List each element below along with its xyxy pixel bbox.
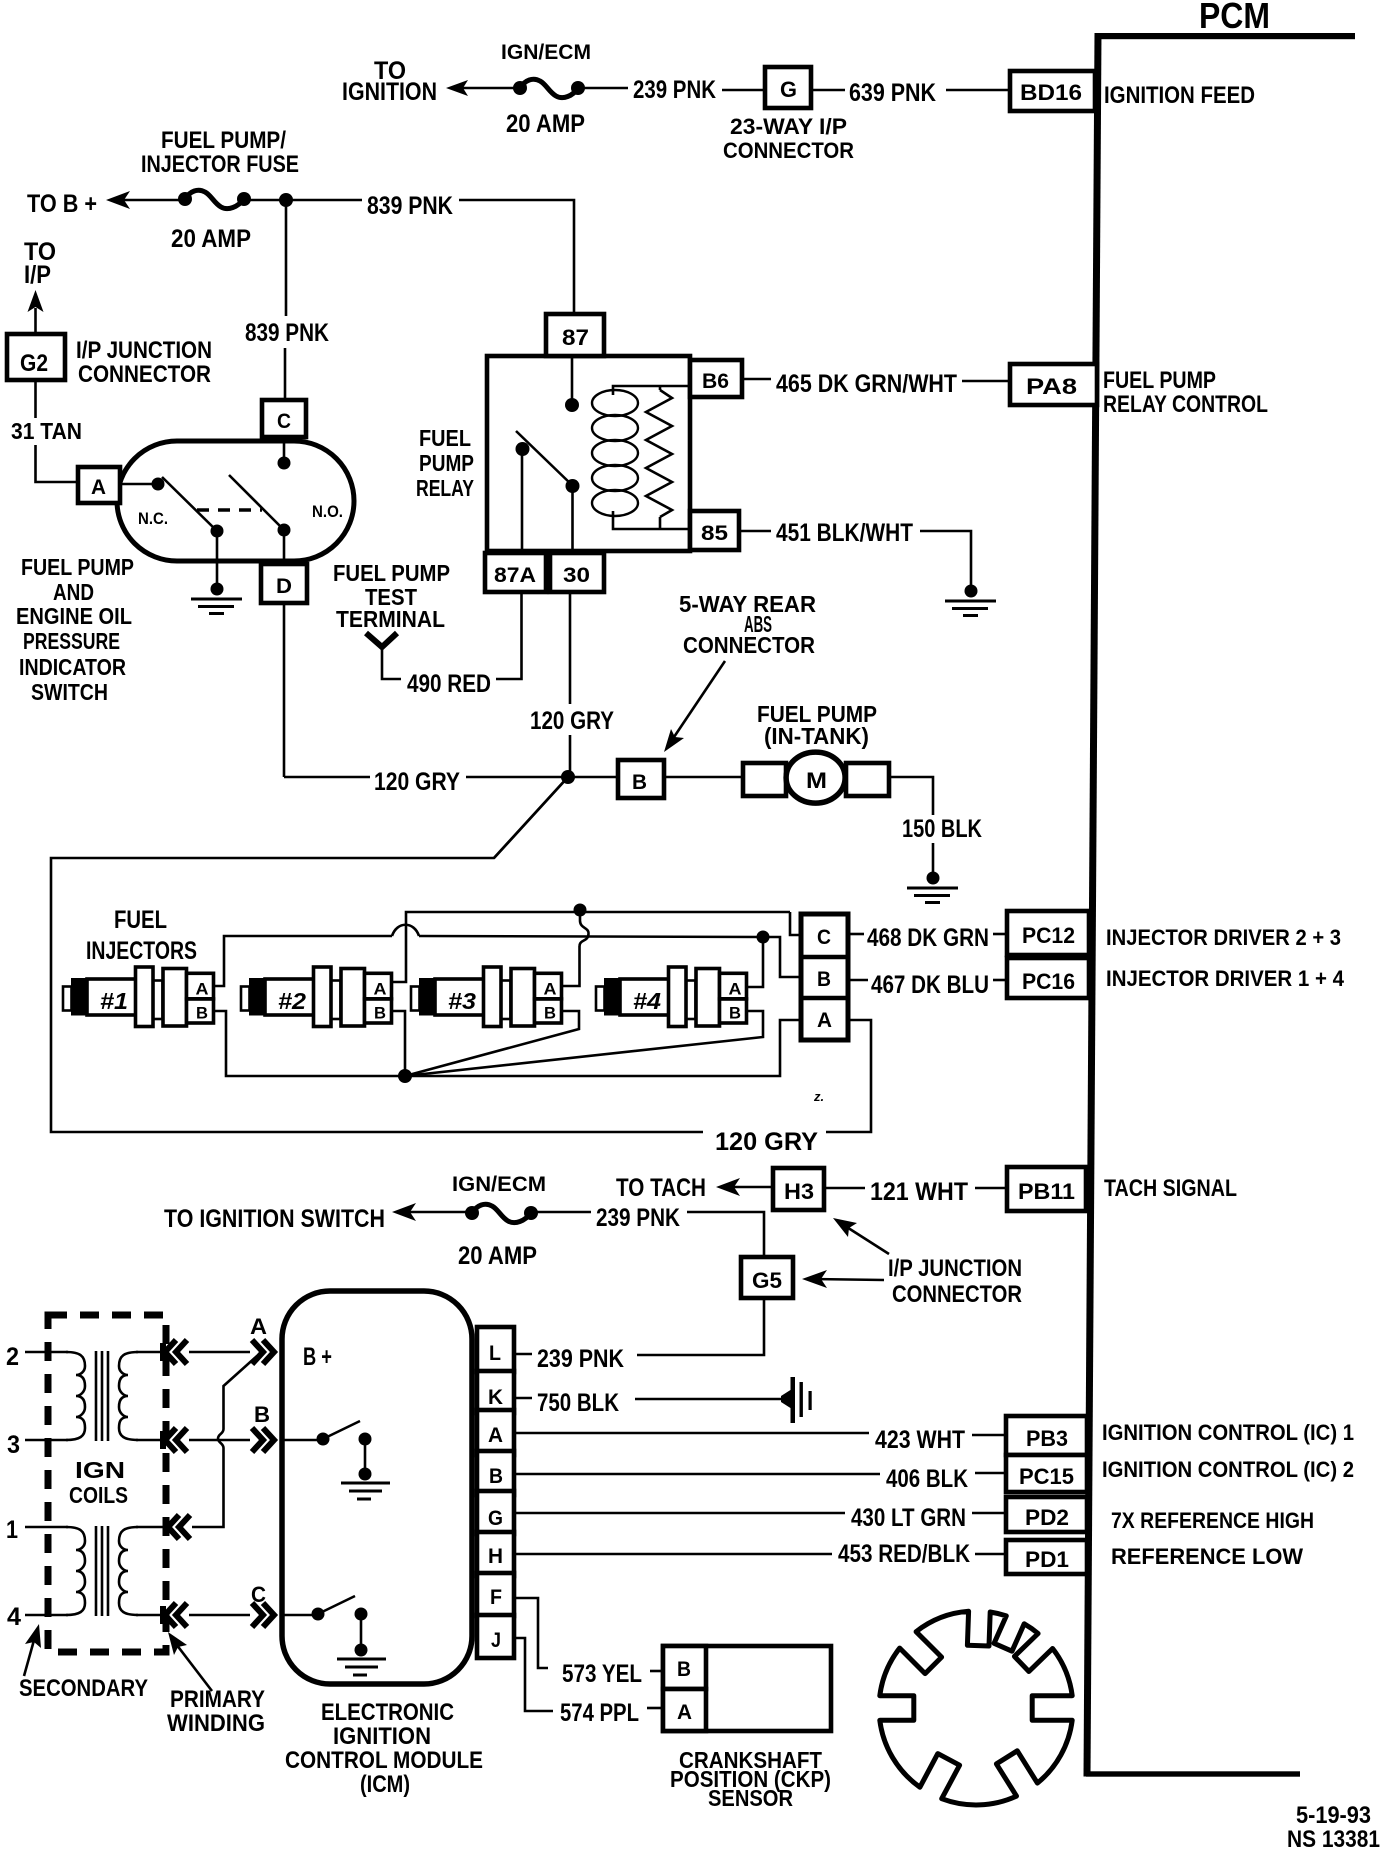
svg-text:AND: AND — [53, 579, 94, 605]
wire fuse to 239 PNK — [578, 87, 628, 90]
connector PC15 box — [1006, 1455, 1087, 1492]
connector chevrons row 1 — [166, 1515, 190, 1539]
injector #4 — [596, 967, 747, 1027]
ground below oval — [191, 583, 242, 614]
svg-text:FUEL: FUEL — [419, 425, 471, 451]
svg-text:CONTROL MODULE: CONTROL MODULE — [285, 1747, 483, 1774]
svg-text:490 RED: 490 RED — [407, 670, 491, 698]
connector G box — [765, 67, 811, 108]
wire H3 to 121 WHT — [826, 1187, 865, 1190]
arrow secondary — [24, 1624, 41, 1676]
svg-text:G5: G5 — [752, 1268, 782, 1293]
wire junction down to C — [285, 200, 288, 316]
injector #2 — [241, 967, 392, 1027]
svg-text:SECONDARY: SECONDARY — [19, 1675, 148, 1702]
dashed link between arms — [197, 508, 262, 511]
wire B box to fuel pump — [664, 776, 743, 779]
arrow to ignition — [446, 80, 468, 96]
svg-text:I/P JUNCTION: I/P JUNCTION — [76, 337, 212, 364]
entry chevrons row A — [252, 1340, 274, 1364]
terminal B6 box — [690, 360, 742, 397]
svg-text:L: L — [489, 1342, 501, 1365]
svg-text:839 PNK: 839 PNK — [367, 192, 453, 220]
svg-text:639 PNK: 639 PNK — [849, 79, 936, 107]
entry chevrons row C — [252, 1603, 274, 1627]
terminal 30 box — [550, 553, 604, 592]
arrow primary winding — [168, 1632, 212, 1691]
oil pressure switch oval — [117, 441, 354, 561]
wire 121 to PB11 — [975, 1187, 1005, 1190]
wire 574 to CKP A — [647, 1707, 663, 1710]
svg-text:IGNITION FEED: IGNITION FEED — [1104, 82, 1255, 109]
terminal 87A box — [485, 553, 546, 592]
wire coil2 primary bottom — [136, 1614, 165, 1617]
svg-text:N.C.: N.C. — [138, 509, 168, 528]
relay coil — [592, 390, 638, 516]
svg-text:5-19-93: 5-19-93 — [1296, 1802, 1371, 1829]
wire junction to 839 PNK label — [244, 199, 362, 202]
svg-text:BD16: BD16 — [1020, 80, 1082, 105]
svg-text:TO B +: TO B + — [27, 190, 97, 218]
CKP sensor body — [663, 1646, 831, 1731]
terminal C box — [262, 400, 306, 437]
coil 2 core — [96, 1526, 108, 1616]
wire 423 to PB3 — [972, 1434, 1005, 1437]
svg-text:PB3: PB3 — [1026, 1426, 1068, 1451]
ignition coils dashed box — [48, 1315, 166, 1652]
fuse ign/ecm 20A lower — [465, 1204, 538, 1222]
coil 2 primary winding — [119, 1527, 138, 1615]
resistor bottom link — [659, 517, 662, 529]
wire row 2 to ICM — [189, 1351, 250, 1354]
svg-text:IGN: IGN — [75, 1457, 125, 1483]
coil 1 core — [96, 1351, 108, 1441]
wire to PA8 — [962, 380, 1008, 383]
wire arrow to fuse — [452, 87, 520, 90]
wire terminal 2 — [25, 1351, 68, 1354]
svg-text:TACH SIGNAL: TACH SIGNAL — [1104, 1175, 1237, 1202]
svg-text:87A: 87A — [494, 564, 536, 587]
wire 451 to ground — [920, 531, 971, 586]
wire 85 stub — [739, 530, 771, 533]
wire 430 to PD2 — [972, 1512, 1005, 1515]
svg-text:J: J — [491, 1629, 501, 1652]
wire inj1-A riser to B bus — [214, 936, 392, 986]
wire B bus continuing — [419, 936, 763, 937]
wire pump to 150 BLK — [889, 777, 933, 815]
svg-text:120 GRY: 120 GRY — [530, 707, 614, 735]
wire F to 573 YEL — [515, 1598, 548, 1668]
node A contact — [152, 478, 165, 491]
resistor top link — [659, 386, 662, 390]
wire B bus into B cell — [763, 937, 801, 977]
wire fuse to 239 PNK — [531, 1211, 591, 1214]
wire D to 120 GRY label — [284, 776, 370, 779]
label FUEL PUMP (IN-TANK) — [757, 701, 877, 749]
wire N.C. to ground — [216, 531, 219, 586]
svg-text:453 RED/BLK: 453 RED/BLK — [838, 1540, 970, 1568]
svg-text:TERMINAL: TERMINAL — [336, 606, 445, 632]
wire G2 down — [34, 380, 37, 418]
svg-text:120 GRY: 120 GRY — [374, 768, 460, 796]
arrow to B+ — [106, 191, 130, 209]
label TO I/P — [24, 238, 56, 289]
svg-text:31 TAN: 31 TAN — [11, 418, 82, 444]
svg-text:G2: G2 — [20, 350, 48, 377]
wire B to 406 BLK — [515, 1473, 880, 1476]
svg-text:ELECTRONIC: ELECTRONIC — [321, 1699, 454, 1726]
wire L to 239 PNK — [515, 1353, 532, 1356]
label FUEL PUMP/ INJECTOR FUSE — [141, 127, 299, 178]
wire row 3 to ICM — [189, 1439, 250, 1442]
svg-text:F: F — [490, 1586, 502, 1609]
connector PA8 box — [1010, 364, 1097, 405]
wire arrow to fuse — [112, 199, 185, 202]
wire 150 BLK to ground — [932, 843, 935, 875]
wire terminal 3 — [25, 1439, 68, 1442]
wire 239 PNK to G — [722, 89, 763, 92]
svg-text:7X REFERENCE HIGH: 7X REFERENCE HIGH — [1111, 1508, 1314, 1533]
terminal 87 box — [546, 314, 604, 356]
svg-text:C: C — [251, 1582, 266, 1607]
wire terminal 4 — [25, 1614, 68, 1617]
node N.C. lower contact — [211, 525, 224, 538]
svg-text:4: 4 — [7, 1603, 21, 1631]
fuse fuel pump/injector 20A — [178, 190, 251, 208]
svg-text:121 WHT: 121 WHT — [870, 1178, 968, 1206]
wire B cell to 467 — [848, 979, 868, 982]
svg-text:RELAY CONTROL: RELAY CONTROL — [1103, 391, 1268, 418]
wire row 1 riser to A chevron — [192, 1356, 257, 1527]
wire inj1-B riser to common bus — [214, 1011, 402, 1076]
svg-text:PUMP: PUMP — [419, 450, 474, 476]
arrow to ignition switch — [392, 1203, 416, 1221]
svg-text:z.: z. — [813, 1089, 824, 1104]
wire 839 PNK to relay 87 riser — [459, 200, 574, 316]
node B bus junction — [757, 931, 770, 944]
svg-text:#2: #2 — [278, 988, 306, 1014]
wire 30 contact down — [571, 486, 574, 553]
ground for 451 — [945, 585, 996, 616]
ICM switch 1 — [317, 1421, 372, 1481]
svg-text:3: 3 — [7, 1431, 20, 1459]
svg-text:A: A — [91, 476, 106, 499]
N.O. switch arm — [229, 475, 284, 530]
wire J to 574 PPL — [515, 1638, 553, 1711]
wire coil1 primary bottom — [136, 1439, 165, 1442]
test terminal Y symbol — [366, 633, 397, 647]
svg-text:WINDING: WINDING — [167, 1710, 265, 1737]
N.C. switch arm — [162, 477, 217, 531]
junction dot after fuse — [279, 193, 293, 207]
wire G2 up — [34, 308, 37, 335]
svg-text:#1: #1 — [100, 988, 128, 1014]
svg-text:CONNECTOR: CONNECTOR — [892, 1281, 1022, 1308]
svg-text:467 DK BLU: 467 DK BLU — [871, 971, 989, 999]
svg-text:SENSOR: SENSOR — [708, 1785, 793, 1811]
svg-text:INJECTOR DRIVER 1 + 4: INJECTOR DRIVER 1 + 4 — [1106, 966, 1345, 991]
wire 87 to contact — [571, 356, 574, 402]
svg-text:PB11: PB11 — [1018, 1179, 1075, 1204]
svg-text:NS 13381: NS 13381 — [1287, 1826, 1380, 1850]
svg-text:IGN/ECM: IGN/ECM — [501, 41, 591, 64]
wire 573 to CKP B — [650, 1670, 663, 1673]
svg-text:B6: B6 — [702, 370, 729, 393]
svg-text:87: 87 — [562, 325, 589, 350]
svg-text:406 BLK: 406 BLK — [886, 1465, 968, 1493]
injector supply loop wire — [51, 777, 703, 1132]
wire B6 stub — [742, 378, 771, 381]
connector B box (ABS) — [618, 760, 664, 798]
injector #3 — [411, 967, 562, 1027]
svg-text:G: G — [780, 77, 797, 102]
label FUEL PUMP RELAY CONTROL — [1103, 367, 1268, 418]
svg-text:839 PNK: 839 PNK — [245, 319, 329, 347]
wire C stub — [283, 437, 286, 463]
node C bus junction — [574, 904, 587, 917]
svg-text:468 DK GRN: 468 DK GRN — [867, 924, 989, 952]
svg-text:20 AMP: 20 AMP — [506, 110, 585, 138]
svg-text:PD1: PD1 — [1025, 1547, 1069, 1572]
node common junction — [398, 1069, 412, 1083]
ICM switch 1 wire — [284, 1439, 323, 1442]
wire A to 423 WHT — [515, 1432, 869, 1435]
svg-text:G: G — [488, 1507, 503, 1530]
connector H3 box — [773, 1168, 824, 1210]
svg-text:(IN-TANK): (IN-TANK) — [764, 723, 869, 749]
wire 30 down — [569, 592, 572, 704]
fuel pump motor — [743, 752, 889, 803]
coil 1 primary winding — [119, 1352, 138, 1440]
svg-text:ENGINE OIL: ENGINE OIL — [16, 603, 132, 629]
arrow to G5 from label — [802, 1270, 884, 1288]
wire inj3-A riser crossing B bus — [562, 946, 580, 986]
svg-text:FUEL PUMP: FUEL PUMP — [1103, 367, 1216, 394]
svg-text:COILS: COILS — [69, 1482, 128, 1508]
wire C cell to 468 — [848, 933, 864, 936]
wire G to 430 LT GRN — [515, 1512, 845, 1515]
label date stamp — [1287, 1802, 1380, 1850]
wire inj4-A riser to junction — [747, 937, 763, 987]
svg-text:574 PPL: 574 PPL — [560, 1699, 639, 1727]
wire inj3-A S-crossing — [580, 912, 589, 946]
wire inj2-A riser to C bus — [392, 912, 790, 982]
wire 406 to PC15 — [975, 1472, 1005, 1475]
wire G to 639 PNK — [811, 89, 845, 92]
connector chevrons row 3 — [163, 1428, 187, 1452]
ICM switch 2 wire — [284, 1614, 318, 1617]
wire to C box — [284, 348, 287, 402]
svg-text:85: 85 — [701, 522, 728, 545]
wire 31 TAN to A — [36, 445, 81, 482]
coil bottom wire — [613, 511, 689, 529]
node fuel pump feed junction — [561, 770, 575, 784]
wire N.O. to D — [283, 530, 286, 564]
svg-text:RELAY: RELAY — [416, 475, 474, 501]
node below C — [278, 457, 291, 470]
svg-text:B: B — [632, 771, 647, 794]
wire 639 PNK to BD16 — [946, 89, 1008, 92]
svg-text:20 AMP: 20 AMP — [458, 1242, 537, 1270]
svg-text:FUEL PUMP: FUEL PUMP — [21, 554, 134, 580]
svg-text:239 PNK: 239 PNK — [633, 76, 716, 104]
svg-text:FUEL PUMP: FUEL PUMP — [333, 560, 450, 586]
svg-text:A: A — [677, 1701, 692, 1724]
svg-text:PRIMARY: PRIMARY — [170, 1686, 265, 1713]
svg-text:N.O.: N.O. — [312, 502, 343, 521]
connector BD16 box — [1010, 71, 1095, 111]
svg-text:#4: #4 — [633, 988, 661, 1014]
wire common bus to A cell — [405, 1020, 801, 1076]
svg-text:#3: #3 — [448, 988, 476, 1014]
coil top wire — [613, 386, 689, 395]
fuse IGN/ECM 20A — [513, 79, 585, 97]
svg-text:PA8: PA8 — [1026, 374, 1077, 399]
svg-text:INDICATOR: INDICATOR — [19, 654, 126, 680]
svg-text:(ICM): (ICM) — [360, 1771, 410, 1798]
svg-text:23-WAY I/P: 23-WAY I/P — [730, 114, 847, 139]
connector PB11 box — [1007, 1167, 1086, 1211]
svg-text:B: B — [817, 968, 831, 991]
svg-text:CONNECTOR: CONNECTOR — [723, 138, 854, 163]
connector PC12 box — [1007, 911, 1089, 955]
svg-text:750 BLK: 750 BLK — [537, 1389, 619, 1417]
wire inj4-B to common junction — [405, 1011, 763, 1076]
svg-text:FUEL: FUEL — [114, 906, 167, 934]
node N.O. contact — [278, 524, 291, 537]
wire 87A contact down — [521, 449, 524, 553]
arrow to tach — [716, 1178, 740, 1196]
wire D down — [283, 603, 286, 777]
label FUEL INJECTORS — [86, 906, 197, 965]
svg-text:IGNITION: IGNITION — [333, 1723, 431, 1750]
connector G5 box — [741, 1257, 793, 1298]
resistor zigzag — [646, 390, 672, 517]
wire junction diagonal to injector loop — [494, 777, 568, 858]
svg-text:C: C — [817, 926, 831, 949]
wire arrow to fuse — [398, 1211, 472, 1214]
arrow to B box — [664, 661, 725, 752]
svg-text:TO TACH: TO TACH — [616, 1174, 706, 1202]
svg-text:PC12: PC12 — [1022, 923, 1075, 948]
svg-text:CONNECTOR: CONNECTOR — [683, 632, 815, 658]
svg-text:239 PNK: 239 PNK — [537, 1345, 624, 1373]
label FUEL PUMP TEST TERMINAL — [333, 560, 450, 632]
label ELECTRONIC IGNITION CONTROL MODULE (ICM) — [285, 1699, 483, 1798]
svg-text:1: 1 — [6, 1516, 18, 1544]
svg-text:M: M — [806, 768, 827, 793]
wire 239 PNK to G5 — [687, 1212, 764, 1257]
svg-text:PCM: PCM — [1199, 0, 1270, 36]
svg-text:SWITCH: SWITCH — [31, 679, 108, 705]
label 23-WAY I/P CONNECTOR — [723, 114, 854, 163]
wire Y down to 490 RED — [382, 645, 401, 679]
wire terminal 1 — [25, 1526, 68, 1529]
wire coil1 primary top — [136, 1351, 165, 1354]
label 5-WAY REAR ABS CONNECTOR — [679, 591, 816, 658]
svg-text:K: K — [488, 1386, 503, 1409]
ICM terminal column — [477, 1327, 514, 1658]
svg-text:150 BLK: 150 BLK — [902, 815, 982, 843]
ground ICM 1 — [341, 1483, 390, 1499]
fuel pump relay box — [487, 356, 690, 551]
relay switch arm — [516, 431, 573, 486]
svg-text:INJECTORS: INJECTORS — [86, 937, 197, 965]
svg-text:423 WHT: 423 WHT — [875, 1426, 965, 1454]
terminal 85 box — [690, 511, 739, 550]
terminal A box — [78, 467, 120, 503]
connector chevrons row 2 — [163, 1340, 187, 1364]
svg-text:30: 30 — [563, 564, 590, 587]
svg-text:PRESSURE: PRESSURE — [23, 628, 120, 654]
label I/P JUNCTION CONNECTOR — [76, 337, 212, 388]
ICM switch 2 — [312, 1596, 368, 1657]
connector PD1 box — [1006, 1540, 1087, 1574]
PCM module outline — [1084, 33, 1356, 1777]
label IGN COILS — [69, 1457, 128, 1508]
wire 750 BLK to chassis ground — [635, 1398, 782, 1401]
wire 453 to PD1 — [975, 1553, 1005, 1556]
svg-text:IGN/ECM: IGN/ECM — [452, 1173, 546, 1196]
ICM module body — [282, 1291, 472, 1684]
chassis ground symbol — [781, 1377, 812, 1423]
ground ICM 2 — [337, 1659, 386, 1675]
svg-text:PD2: PD2 — [1025, 1505, 1069, 1530]
wire K to 750 BLK — [515, 1397, 532, 1400]
wire inj2-B to common junction — [392, 1011, 405, 1076]
terminal D box — [261, 564, 307, 603]
svg-text:H: H — [488, 1545, 503, 1568]
wire H to 453 RED/BLK — [515, 1553, 832, 1556]
svg-text:573 YEL: 573 YEL — [562, 1660, 642, 1688]
wire loop to A cell — [826, 1020, 871, 1132]
node 87A contact — [516, 442, 530, 456]
connector chevrons row 4 — [163, 1603, 187, 1627]
label PRIMARY WINDING — [167, 1686, 265, 1737]
label CRANKSHAFT POSITION (CKP) SENSOR — [670, 1747, 831, 1811]
wire C bus into C cell — [790, 912, 801, 935]
svg-text:FUEL PUMP/: FUEL PUMP/ — [161, 127, 286, 154]
svg-text:INJECTOR DRIVER 2 + 3: INJECTOR DRIVER 2 + 3 — [1106, 925, 1341, 950]
svg-text:A: A — [488, 1424, 503, 1447]
wire B bus hop over #2 riser — [392, 925, 419, 936]
node 30 contact — [566, 479, 580, 493]
svg-text:I/P: I/P — [24, 261, 51, 289]
injector connector stack C/B/A — [801, 914, 848, 1040]
injector #1 — [63, 967, 214, 1027]
wire coil2 primary top — [136, 1526, 168, 1529]
wire 468 to PC12 — [993, 933, 1006, 936]
svg-text:451 BLK/WHT: 451 BLK/WHT — [776, 519, 913, 547]
label FUEL PUMP RELAY — [416, 425, 474, 501]
node 87 contact — [565, 398, 579, 412]
svg-text:B: B — [254, 1402, 270, 1427]
connector PC16 box — [1007, 958, 1089, 998]
wire G5 down to L wire — [637, 1298, 764, 1355]
svg-text:REFERENCE LOW: REFERENCE LOW — [1111, 1544, 1303, 1569]
svg-text:239 PNK: 239 PNK — [596, 1204, 680, 1232]
svg-text:C: C — [277, 410, 291, 433]
svg-text:INJECTOR FUSE: INJECTOR FUSE — [141, 151, 299, 178]
wire 490 RED to 87A — [496, 592, 522, 679]
svg-text:A: A — [817, 1009, 832, 1032]
label TO IGNITION — [342, 57, 437, 106]
reluctor wheel — [880, 1611, 1072, 1805]
svg-text:120 GRY: 120 GRY — [715, 1128, 818, 1156]
svg-text:B +: B + — [303, 1343, 332, 1371]
label FUEL PUMP AND ENGINE OIL PRESSURE INDICATOR SWITCH — [16, 554, 134, 705]
svg-text:IGNITION CONTROL (IC) 2: IGNITION CONTROL (IC) 2 — [1102, 1457, 1354, 1482]
